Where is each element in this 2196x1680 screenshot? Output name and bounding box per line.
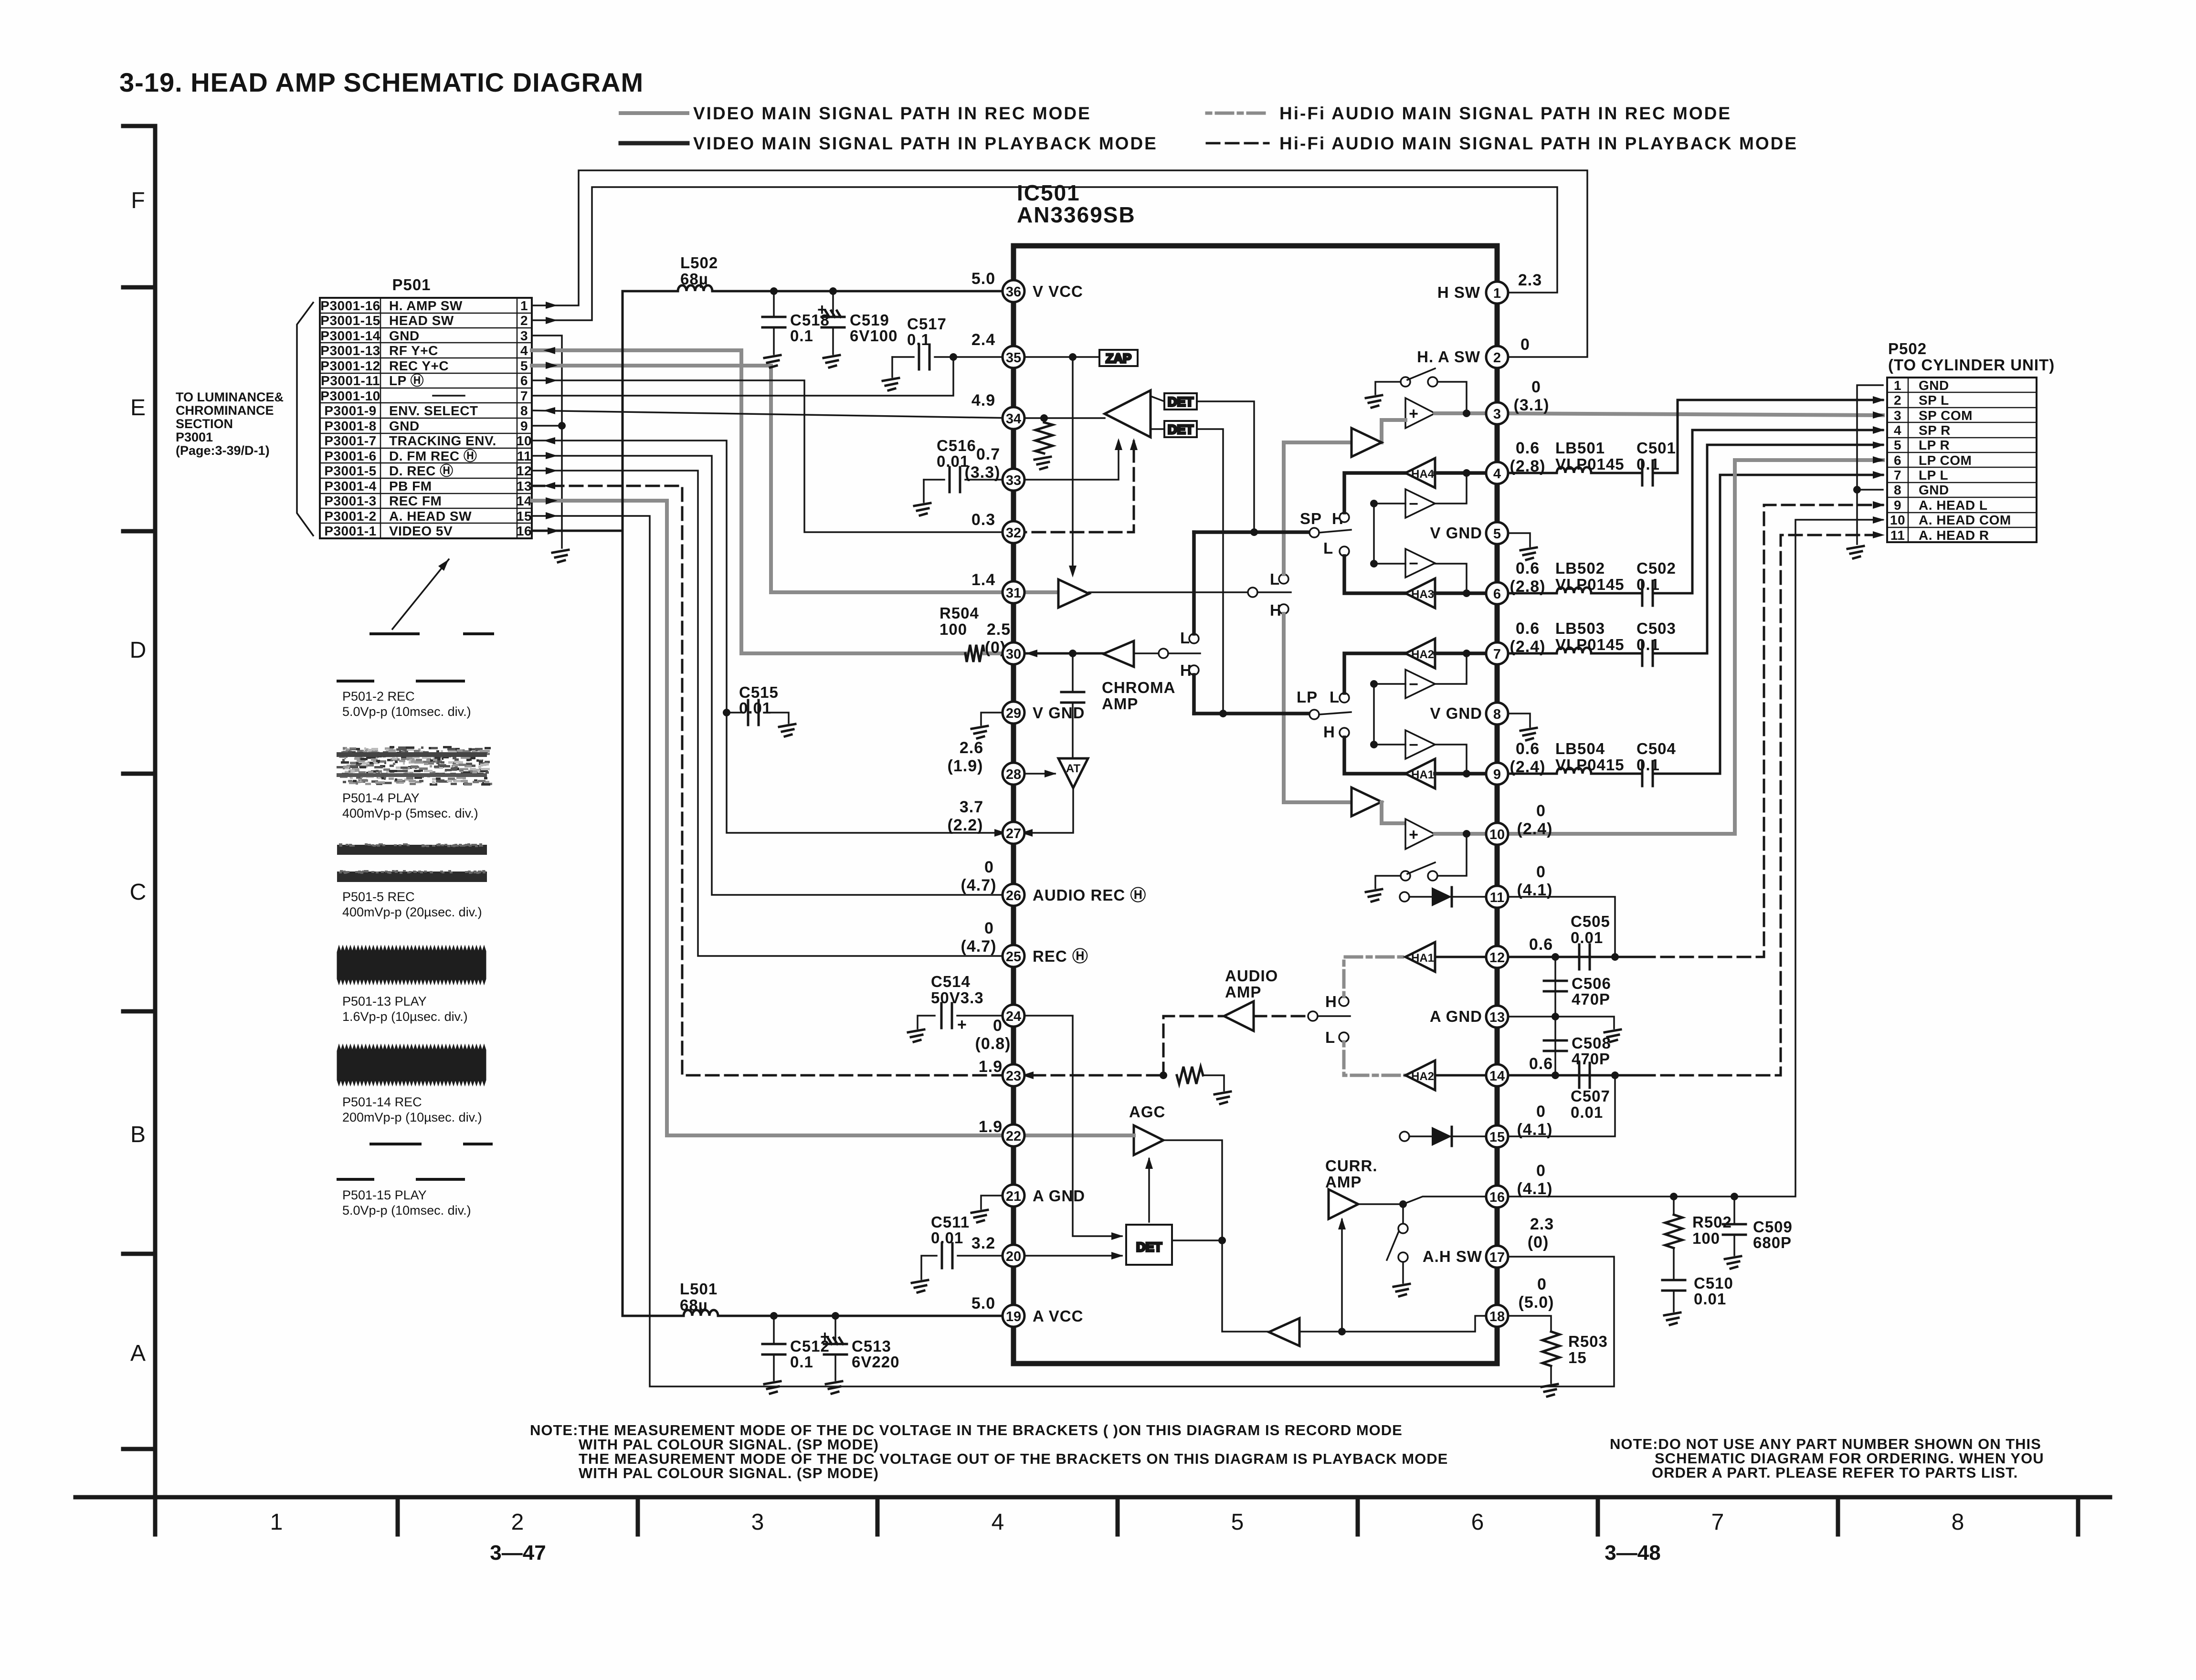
ground curr sw gnd	[1394, 1284, 1410, 1296]
wire plus out	[1435, 411, 1497, 415]
contact SP L contact	[1340, 546, 1349, 556]
op-amp LP minus amp2	[1405, 730, 1435, 759]
svg-text:2: 2	[520, 313, 528, 328]
svg-text:3: 3	[1894, 408, 1901, 423]
ground audio bias gnd	[1214, 1092, 1231, 1104]
svg-text:VLP0145: VLP0145	[1555, 576, 1625, 593]
svg-text:26: 26	[1006, 888, 1021, 903]
svg-text:6: 6	[1471, 1510, 1484, 1535]
svg-text:34: 34	[1006, 411, 1021, 427]
wire SP bus drop	[1192, 532, 1196, 634]
svg-text:C515: C515	[739, 683, 779, 701]
op-amp LP pb driver	[1351, 787, 1382, 816]
waveform P501-13 dense image	[337, 945, 486, 985]
wire P501-3 gnd bus	[532, 336, 562, 548]
capacitor C516 0.01	[950, 467, 960, 492]
pin IC501-20	[1003, 1245, 1024, 1267]
wire pin5 gnd lead	[1497, 533, 1530, 546]
svg-text:0.6: 0.6	[1516, 619, 1540, 638]
svg-text:+: +	[817, 301, 827, 319]
arrowhead P501-10 in	[543, 437, 555, 444]
svg-text:(2.4): (2.4)	[1517, 820, 1553, 838]
capacitor C511 0.01	[942, 1243, 952, 1268]
capacitor C517 0.1	[919, 345, 929, 369]
wire pin31 lever	[1257, 591, 1291, 593]
bottom ruler tick 5	[1356, 1497, 1360, 1534]
svg-text:0.1: 0.1	[1636, 756, 1660, 774]
svg-text:(TO CYLINDER UNIT): (TO CYLINDER UNIT)	[1888, 356, 2055, 374]
wire AGC out	[1163, 1140, 1222, 1240]
wire P502 gnd row8	[1857, 489, 1883, 491]
junction SP DET junction	[1250, 528, 1258, 536]
pin IC501-30	[1003, 642, 1024, 664]
wire C511 gnd lead	[921, 1256, 937, 1279]
pin IC501-34	[1003, 407, 1024, 429]
svg-text:A. HEAD SW: A. HEAD SW	[389, 509, 472, 524]
svg-text:3: 3	[520, 328, 528, 343]
resistor R503 15	[1542, 1332, 1560, 1366]
arrowhead AGC ctl arrow	[1145, 1157, 1153, 1169]
pin IC501-31	[1003, 581, 1024, 603]
svg-text:0.1: 0.1	[1636, 455, 1660, 473]
svg-text:AMP: AMP	[1325, 1173, 1362, 1191]
svg-text:1.4: 1.4	[971, 571, 995, 589]
curr sw lever	[1387, 1231, 1399, 1260]
wire C518 lead	[773, 291, 775, 316]
wire amp to DET2	[1151, 428, 1164, 430]
svg-text:(2.4): (2.4)	[1510, 758, 1546, 776]
svg-text:29: 29	[1006, 706, 1021, 721]
ground plus sw gnd	[1366, 395, 1382, 408]
svg-text:AUDIO REC Ⓗ: AUDIO REC Ⓗ	[1033, 886, 1146, 904]
svg-text:4.9: 4.9	[971, 391, 995, 409]
wire chroma cap chain2	[1072, 703, 1074, 758]
svg-text:0.1: 0.1	[790, 1353, 813, 1371]
svg-text:ENV. SELECT: ENV. SELECT	[389, 403, 478, 418]
svg-text:0.1: 0.1	[1636, 576, 1660, 593]
svg-text:L: L	[1330, 688, 1340, 706]
svg-text:L: L	[1323, 539, 1333, 557]
wire lminus2 in	[1374, 744, 1405, 745]
svg-text:12: 12	[1489, 950, 1505, 966]
svg-text:2.5: 2.5	[987, 620, 1011, 639]
svg-text:VLP0415: VLP0415	[1555, 756, 1625, 774]
contact curr sw c2	[1398, 1252, 1408, 1262]
waveform P501-2 trace	[338, 634, 493, 681]
wire SP lever	[1319, 530, 1351, 533]
wire C506 chain	[1554, 957, 1556, 1017]
junction C507 right dot	[1611, 1071, 1619, 1079]
wire pin11 diode wire	[1409, 896, 1497, 898]
svg-text:0: 0	[984, 919, 994, 937]
svg-text:P3001-8: P3001-8	[324, 419, 376, 433]
arrowhead P501-2 out	[546, 317, 558, 324]
arrowhead P501-1 out	[546, 302, 558, 309]
svg-text:A: A	[130, 1341, 146, 1366]
left ruler tick 0	[123, 124, 155, 128]
svg-text:HA1: HA1	[1411, 952, 1434, 965]
svg-text:C504: C504	[1636, 740, 1676, 757]
svg-text:100: 100	[1692, 1229, 1720, 1247]
svg-text:400mVp-p (5msec. div.): 400mVp-p (5msec. div.)	[342, 806, 478, 820]
wire minus1 in	[1374, 503, 1405, 504]
svg-text:(2.8): (2.8)	[1510, 457, 1546, 475]
svg-text:(5.0): (5.0)	[1519, 1293, 1554, 1312]
svg-text:C501: C501	[1636, 439, 1676, 457]
svg-text:11: 11	[1490, 890, 1505, 905]
wire pin16 line	[1497, 520, 1883, 1197]
wire AGC ctl	[1148, 1159, 1150, 1222]
op-amp SP minus amp1	[1405, 489, 1435, 518]
contact curr sw c1	[1398, 1224, 1408, 1233]
svg-text:P3001-14: P3001-14	[320, 328, 380, 343]
wire minus feedback v	[1373, 504, 1375, 564]
capacitor C504	[1642, 761, 1653, 786]
wire HA4 out	[1435, 471, 1497, 475]
wire pin20 det wire	[1014, 1255, 1122, 1257]
wire DET2 to LP line	[1197, 429, 1223, 714]
ground pin5 gnd	[1520, 547, 1537, 560]
svg-text:H: H	[1323, 723, 1335, 741]
wire SP pb to plus	[1382, 420, 1405, 442]
svg-text:5.0: 5.0	[971, 270, 995, 288]
junction curr out junction	[1399, 1200, 1407, 1208]
svg-text:HA2: HA2	[1411, 648, 1434, 661]
svg-text:6V100: 6V100	[850, 327, 897, 345]
wire C514 to pin24	[957, 1015, 1014, 1017]
arrowhead env arrow2	[1130, 438, 1138, 450]
wire HA4 in	[1344, 473, 1405, 513]
svg-text:(2.4): (2.4)	[1510, 638, 1546, 656]
capacitor C509 680P	[1723, 1224, 1746, 1235]
svg-text:0.6: 0.6	[1529, 935, 1553, 954]
pin IC501-24	[1003, 1005, 1024, 1027]
svg-text:P3001: P3001	[176, 430, 213, 444]
svg-text:2: 2	[1894, 393, 1901, 408]
svg-text:C506: C506	[1572, 975, 1611, 992]
wire P501-13 to pin23	[532, 486, 1014, 1075]
svg-text:27: 27	[1006, 826, 1021, 841]
wire P501-2 to H SW	[532, 187, 1557, 320]
svg-text:CHROMINANCE: CHROMINANCE	[176, 403, 274, 418]
svg-text:R502: R502	[1692, 1213, 1732, 1231]
wire C518 lead2	[773, 328, 775, 354]
capacitor C507 0.01	[1579, 1063, 1590, 1088]
svg-text:P501: P501	[392, 276, 431, 294]
svg-text:18: 18	[1489, 1309, 1505, 1324]
svg-text:9: 9	[520, 419, 528, 433]
svg-text:(3.3): (3.3)	[965, 463, 1001, 482]
wire plus sw right	[1437, 382, 1467, 413]
svg-text:4: 4	[1894, 423, 1901, 438]
svg-text:1: 1	[1894, 378, 1901, 393]
svg-text:0.01: 0.01	[739, 699, 771, 717]
svg-text:TO LUMINANCE&: TO LUMINANCE&	[176, 390, 284, 404]
wire chroma cap chain	[1072, 653, 1074, 692]
svg-text:(2.8): (2.8)	[1510, 577, 1546, 596]
svg-text:HA4: HA4	[1411, 468, 1435, 481]
wire HA2 out	[1435, 651, 1497, 655]
wire AHA1 out	[1435, 956, 1497, 958]
contact audio common	[1308, 1011, 1318, 1021]
wire pin31 to amp	[1014, 590, 1058, 594]
wire LP bus rise	[1192, 675, 1196, 714]
svg-text:V GND: V GND	[1033, 704, 1085, 722]
wire chroma sw wire	[1134, 652, 1159, 654]
contact sw31 L contact	[1279, 574, 1288, 584]
svg-text:P3001-15: P3001-15	[320, 313, 380, 328]
svg-text:A.H SW: A.H SW	[1423, 1248, 1482, 1265]
capacitor C518 0.1	[762, 317, 785, 327]
arrowhead A.HEAD COM arrow	[1873, 516, 1885, 524]
wire C519 lead	[832, 291, 834, 316]
svg-text:GND: GND	[1919, 483, 1949, 497]
ground pin13 gnd	[1605, 1029, 1621, 1042]
legend hifi rec swatch	[1207, 112, 1268, 115]
arrowhead P502-2 arrow	[1873, 396, 1885, 404]
svg-text:13: 13	[517, 479, 532, 493]
svg-text:6: 6	[1894, 453, 1901, 468]
svg-text:5: 5	[1493, 526, 1501, 542]
svg-text:Hi-Fi AUDIO MAIN SIGNAL PATH I: Hi-Fi AUDIO MAIN SIGNAL PATH IN REC MODE	[1279, 104, 1731, 123]
svg-text:H SW: H SW	[1437, 283, 1480, 301]
svg-text:+: +	[1409, 826, 1418, 844]
svg-text:P3001-4: P3001-4	[324, 479, 376, 493]
wire C508 chain	[1554, 1017, 1556, 1075]
wire pin12 dashed	[1642, 505, 1883, 957]
left ruler line	[153, 126, 158, 1497]
svg-text:10: 10	[517, 433, 532, 448]
svg-text:31: 31	[1006, 586, 1021, 601]
svg-text:7: 7	[520, 388, 528, 403]
svg-text:LP L: LP L	[1919, 468, 1948, 483]
contact pin31 switch common	[1248, 588, 1257, 597]
wire HA2 in	[1344, 653, 1405, 693]
svg-text:7: 7	[1894, 468, 1901, 483]
wire C513 lead	[834, 1316, 836, 1344]
wire pin33 env arrow	[1014, 441, 1119, 480]
contact sw31 H contact	[1279, 604, 1288, 614]
svg-text:SECTION: SECTION	[176, 417, 233, 431]
arrowhead P501-12 out	[546, 467, 558, 474]
svg-text:21: 21	[1006, 1189, 1021, 1204]
arrowhead SP COM arrow	[1873, 411, 1885, 419]
wire pin6 head line b	[1591, 592, 1642, 595]
svg-text:(0.8): (0.8)	[975, 1035, 1011, 1053]
svg-text:1.6Vp-p (10µsec. div.): 1.6Vp-p (10µsec. div.)	[342, 1009, 468, 1024]
inductor LB501	[1557, 467, 1591, 473]
wire VCC line	[623, 290, 678, 293]
wire pin9 head line c	[1653, 475, 1883, 774]
pin IC501-28	[1003, 763, 1024, 785]
wire C517 left	[892, 356, 914, 358]
wire pin7 head line c	[1653, 445, 1883, 653]
svg-text:2.3: 2.3	[1530, 1215, 1554, 1233]
svg-text:5: 5	[1894, 438, 1901, 452]
junction AVCC C513	[832, 1312, 839, 1320]
svg-text:20: 20	[1006, 1249, 1021, 1264]
svg-text:3-19. HEAD AMP SCHEMATIC DIAG: 3-19. HEAD AMP SCHEMATIC DIAGRAM	[119, 67, 644, 97]
wire P501-11 to pin26	[532, 456, 1014, 895]
wire SP pb feed	[1284, 442, 1351, 574]
capacitor C506 470P	[1544, 981, 1567, 991]
junction pin35 inner junction	[1069, 353, 1077, 361]
pin IC501-7	[1486, 642, 1508, 664]
op-amp AHA1	[1405, 942, 1435, 972]
svg-text:100: 100	[940, 620, 967, 638]
pin IC501-2	[1486, 346, 1508, 368]
ground C513 gnd	[826, 1381, 842, 1394]
inductor LB502	[1557, 588, 1591, 593]
svg-text:LP COM: LP COM	[1919, 453, 1972, 468]
wire audio in dash	[1014, 1074, 1163, 1077]
junction C507 left dot	[1552, 1071, 1559, 1079]
svg-text:C507: C507	[1571, 1087, 1610, 1105]
wire P502 gnd bus	[1857, 385, 1883, 544]
svg-text:4: 4	[520, 343, 528, 358]
arrowhead P501-5 out	[546, 362, 558, 369]
svg-text:2.6: 2.6	[960, 739, 983, 757]
pin IC501-26	[1003, 884, 1024, 906]
plus sw lever	[1407, 368, 1435, 380]
ground C509 gnd	[1725, 1256, 1741, 1269]
svg-text:P502: P502	[1888, 340, 1927, 357]
junction lminus1 dot	[1370, 680, 1378, 688]
svg-text:R504: R504	[940, 604, 979, 622]
junction C509 top dot	[1731, 1193, 1738, 1200]
svg-text:0.01: 0.01	[1571, 1103, 1603, 1121]
wire pin34 into amp	[1014, 417, 1105, 419]
contact plus sw c1	[1428, 377, 1437, 387]
arrowhead P501-11 out	[546, 452, 558, 459]
svg-text:C514: C514	[931, 973, 971, 990]
wire pin3 to SP COM	[1497, 413, 1883, 415]
svg-text:C513: C513	[852, 1337, 891, 1355]
DET3 box	[1126, 1225, 1172, 1265]
wire audio L path	[1344, 1042, 1405, 1075]
svg-text:30: 30	[1006, 647, 1021, 662]
wire pin13 line	[1497, 1017, 1614, 1029]
junction pin9 junction	[1463, 770, 1470, 777]
wire amp to DET1	[1151, 396, 1164, 401]
wire curr sw upper	[1402, 1204, 1404, 1224]
wire lminus1 in	[1374, 683, 1405, 685]
ground R int gnd	[1035, 457, 1051, 469]
svg-text:V GND: V GND	[1430, 524, 1482, 542]
svg-text:0.1: 0.1	[907, 331, 930, 348]
ground C515 gnd	[779, 724, 795, 736]
arrowhead curr ctl arrow	[1338, 1218, 1346, 1229]
svg-text:0.6: 0.6	[1516, 559, 1540, 577]
svg-text:8: 8	[1952, 1510, 1964, 1535]
svg-text:9: 9	[1894, 498, 1901, 513]
wire pin7 head line a	[1497, 652, 1557, 655]
wire AT out	[1022, 788, 1073, 833]
pin IC501-25	[1003, 945, 1024, 967]
svg-text:WITH PAL COLOUR SIGNAL. (SP MO: WITH PAL COLOUR SIGNAL. (SP MODE)	[579, 1465, 879, 1481]
svg-text:2.3: 2.3	[1518, 271, 1542, 289]
pin IC501-5	[1486, 522, 1508, 544]
svg-text:11: 11	[1890, 528, 1905, 543]
waveform P501-14 dense image	[337, 1044, 486, 1086]
svg-text:LP Ⓗ: LP Ⓗ	[389, 373, 424, 388]
left ruler tick 2	[123, 529, 155, 534]
svg-text:P501-4 PLAY: P501-4 PLAY	[342, 791, 420, 805]
IC501 outline top	[1014, 246, 1497, 1364]
wire lplus sw gnd lead	[1375, 876, 1401, 888]
contact SP common	[1309, 528, 1319, 537]
svg-text:LB503: LB503	[1555, 619, 1605, 637]
svg-text:A. HEAD L: A. HEAD L	[1919, 498, 1988, 513]
svg-text:13: 13	[1489, 1010, 1505, 1025]
contact audio L contact	[1339, 1032, 1349, 1042]
svg-text:2: 2	[511, 1510, 524, 1535]
svg-text:ORDER A PART. PLEASE REFER TO: ORDER A PART. PLEASE REFER TO PARTS LIST…	[1652, 1464, 2018, 1481]
svg-text:LP: LP	[1297, 688, 1318, 706]
svg-text:15: 15	[517, 509, 532, 524]
junction AVCC C512	[770, 1312, 778, 1320]
svg-text:(4.1): (4.1)	[1517, 1180, 1553, 1198]
svg-text:Hi-Fi AUDIO MAIN SIGNAL PATH I: Hi-Fi AUDIO MAIN SIGNAL PATH IN PLAYBACK…	[1279, 134, 1798, 153]
svg-text:5.0: 5.0	[971, 1294, 995, 1312]
waveform P501-5 noise strips	[337, 843, 487, 882]
svg-text:8: 8	[1493, 707, 1501, 722]
wire pin12 line	[1497, 956, 1642, 958]
wire C514 gnd lead	[918, 1016, 935, 1029]
svg-text:REC FM: REC FM	[389, 493, 442, 508]
wire P501-8 to pin34	[532, 410, 1014, 418]
op-amp SP pb driver	[1351, 428, 1382, 457]
contact LP common	[1309, 710, 1319, 719]
ground C510 gnd	[1664, 1312, 1680, 1325]
svg-text:LB502: LB502	[1555, 559, 1605, 577]
wire audio lever	[1318, 1015, 1350, 1017]
svg-text:32: 32	[1006, 525, 1021, 541]
arrowhead env arrow	[1115, 438, 1122, 450]
svg-text:0.6: 0.6	[1529, 1055, 1553, 1073]
svg-text:3: 3	[751, 1510, 764, 1535]
pin IC501-32	[1003, 521, 1024, 543]
diode D2	[1432, 1127, 1452, 1146]
junction det out junction	[1218, 1237, 1226, 1244]
contact LP L contact	[1340, 693, 1349, 703]
op-amp HA3	[1405, 578, 1435, 608]
junction pin4 junction	[1463, 469, 1470, 477]
capacitor C510 0.01	[1662, 1280, 1685, 1291]
capacitor C514 50V3.3	[941, 1003, 952, 1028]
svg-text:(0): (0)	[1528, 1233, 1549, 1251]
svg-text:0.01: 0.01	[931, 1229, 963, 1247]
svg-text:0: 0	[1536, 802, 1546, 820]
wire DET3 right	[1172, 1239, 1222, 1241]
svg-text:P3001-3: P3001-3	[324, 493, 376, 508]
svg-text:0.7: 0.7	[976, 445, 1000, 463]
svg-text:L502: L502	[680, 254, 718, 272]
op-amp PB video amp	[1105, 390, 1151, 437]
svg-text:DET: DET	[1136, 1240, 1162, 1254]
svg-text:A. HEAD R: A. HEAD R	[1919, 528, 1989, 543]
wire pin4 head line b	[1591, 472, 1642, 474]
svg-text:7: 7	[1711, 1510, 1724, 1535]
wire C513 lead2	[834, 1355, 836, 1380]
wire LP lever	[1319, 712, 1351, 714]
svg-text:3: 3	[1493, 407, 1501, 422]
wire P501-15 to A.H SW loop	[532, 516, 1614, 1386]
arrowhead P501 pointer	[438, 559, 449, 571]
pin IC501-9	[1486, 763, 1508, 785]
inductor LB504	[1557, 768, 1591, 774]
wire pin6 head line c	[1653, 430, 1883, 593]
